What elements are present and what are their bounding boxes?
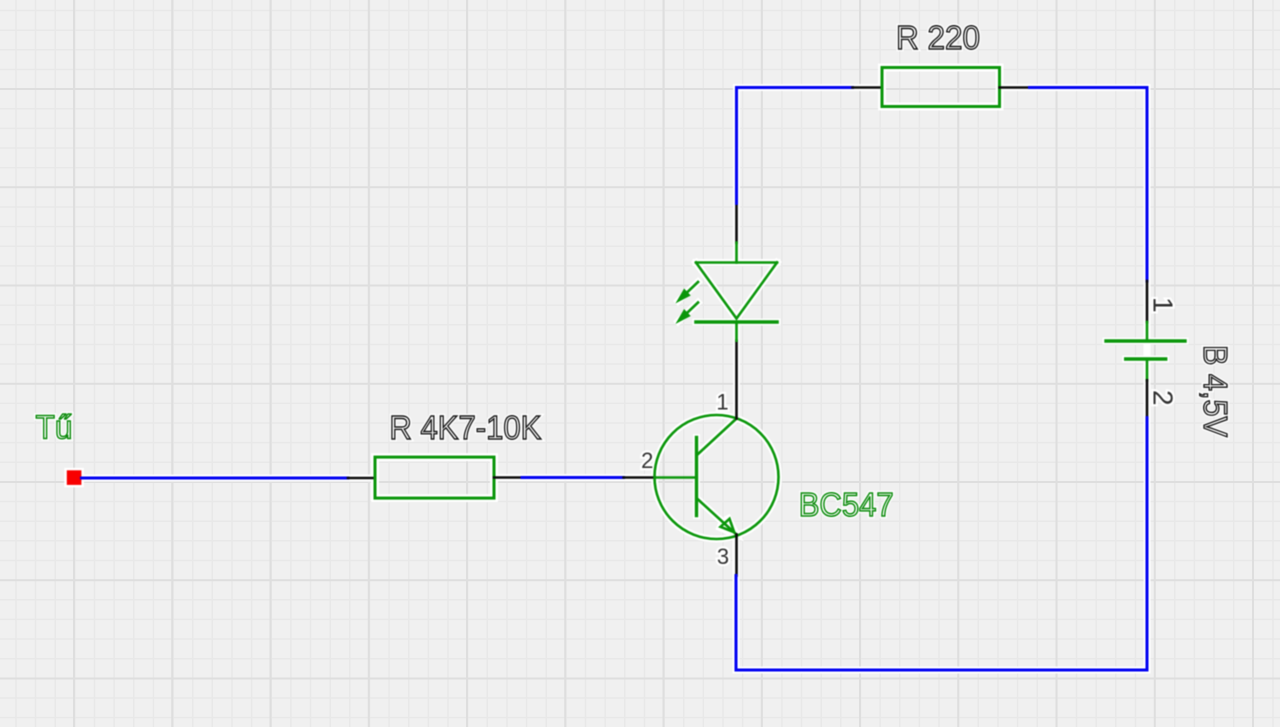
transistor Q1 base pin lead (pin 2, black) [624,476,655,479]
resistor R2 value label "R 4K7-10K" [389,409,541,446]
svg-text:BC547: BC547 [799,486,894,523]
transistor Q1 emitter pin lead (pin 3, black) [735,535,738,576]
transistor Q1 pin number 3 [717,544,729,569]
LED D1 body: anode stub, triangle, cathode bar, cathode stub [696,243,777,341]
wire: top-left corner (LED anode up and across) [737,88,853,204]
transistor Q1 body circle [655,415,779,539]
svg-text:R 220: R 220 [896,19,980,56]
svg-text:3: 3 [717,544,729,569]
transistor Q1 base stub inside circle [655,476,697,479]
LED D1 emission arrow 2 [678,303,698,322]
resistor R1 value label "R 220" [896,19,980,56]
battery B1 pin number 1 [1148,297,1179,313]
resistor R1 pin 2 lead [1000,86,1030,89]
transistor Q1 label BC547 [799,486,894,523]
battery B1 pin 1 lead (black) [1146,281,1149,322]
shared lead: LED D1 cathode to Q1 collector (black) [735,341,738,419]
battery B1 label "B 4,5V" (rotated) [1197,345,1234,437]
wire R2 to Q1 base lead [522,476,624,479]
svg-text:2: 2 [1148,390,1179,406]
svg-text:1: 1 [1148,297,1179,313]
transistor Q1 pin number 1 [716,390,728,415]
wire: battery to bottom-right corner and across bottom to Q1 emitter [736,418,1147,670]
net label Tű [36,409,73,446]
transistor Q1 emitter stroke (diagonal with open arrow) [698,499,737,535]
transistor Q1 collector stroke (diagonal) [698,419,737,455]
resistor R2 body (R 4K7-10K) [375,457,494,498]
svg-text:Tű: Tű [36,409,73,446]
battery B1 pin number 2 [1148,390,1179,406]
wire Tű node to R2 left lead [81,477,348,480]
transistor Q1 base bar [695,438,698,516]
resistor R2 pin 2 lead [494,476,522,479]
svg-text:R 4K7-10K: R 4K7-10K [389,409,541,446]
resistor R1 body (R 220) [882,68,1000,107]
node Tű : red junction square [66,469,83,486]
battery B1 pin 2 lead (black) [1146,380,1149,417]
resistor R1 pin 1 lead [853,86,883,89]
svg-text:1: 1 [716,390,728,415]
LED D1 emission arrow 1 [678,282,698,301]
battery B1 body: stubs and plates [1106,322,1185,380]
LED D1 anode lead (black) [735,203,738,242]
resistor R2 pin 1 lead [348,477,375,480]
transistor Q1 pin number 2 [641,448,653,473]
svg-text:2: 2 [641,448,653,473]
wire: R1 to battery B1 (top-right corner down) [1030,88,1148,282]
svg-text:B 4,5V: B 4,5V [1197,345,1234,437]
